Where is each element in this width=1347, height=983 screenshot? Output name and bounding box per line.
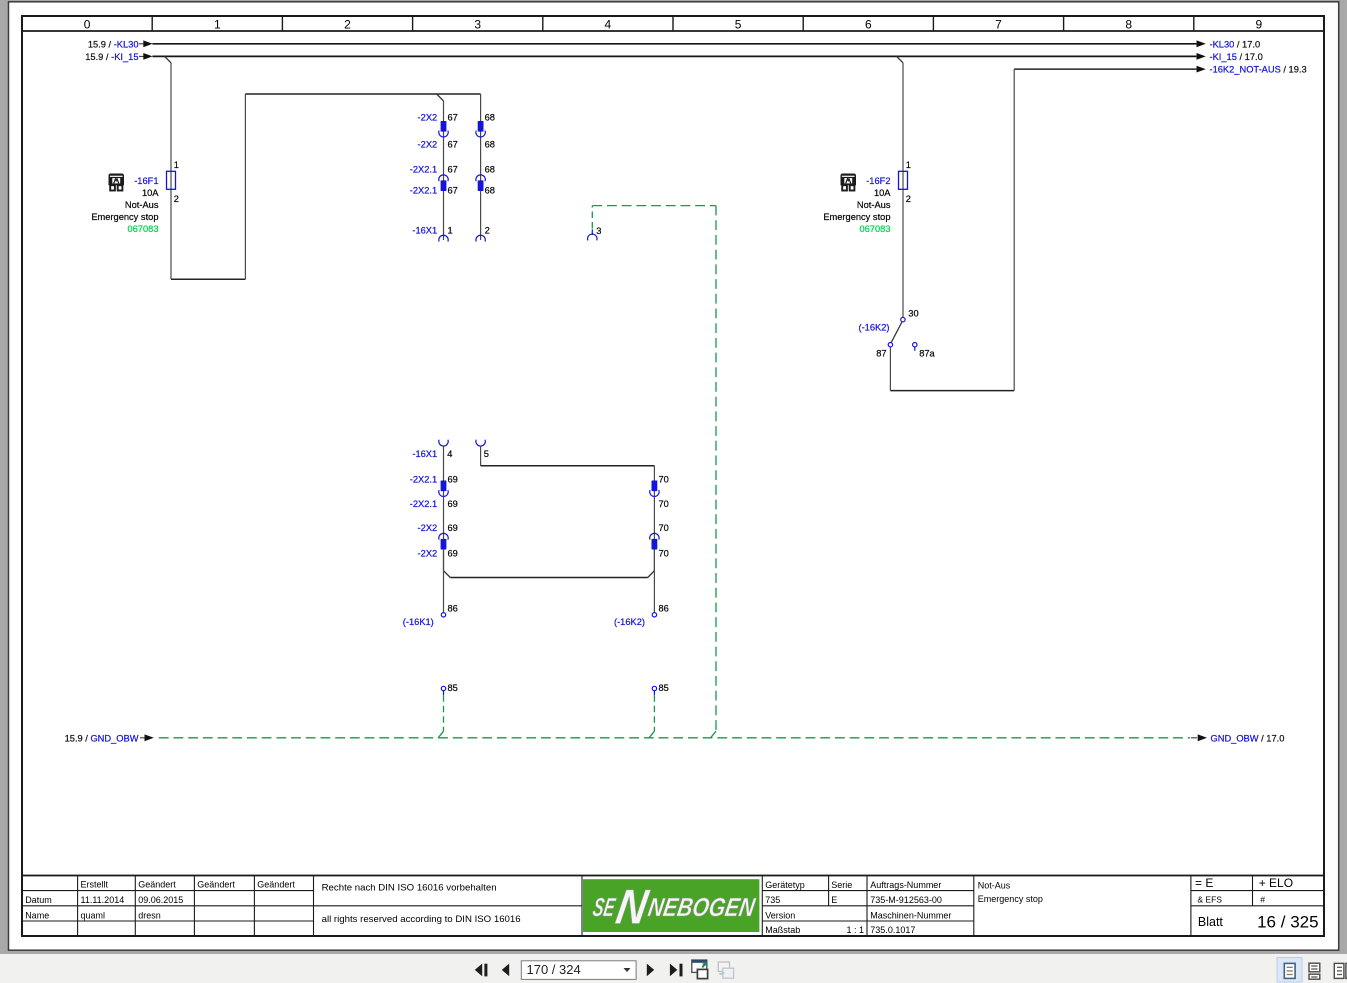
svg-text:6: 6 bbox=[865, 17, 872, 31]
svg-text:735-M-912563-00: 735-M-912563-00 bbox=[870, 895, 942, 905]
connector -2X2.1 pin 68 (lower pair) bbox=[476, 175, 485, 181]
green wire right riser down bbox=[715, 206, 717, 732]
svg-text:Not-Aus: Not-Aus bbox=[978, 881, 1011, 891]
source arrow GND_OBW left bbox=[140, 737, 146, 739]
wire net -KI_15 top bus bbox=[152, 55, 1196, 57]
svg-text:-2X2.1: -2X2.1 bbox=[410, 164, 437, 174]
svg-text:4: 4 bbox=[605, 17, 612, 31]
wire 67 chain upper bbox=[443, 101, 445, 240]
svg-text:170 / 324: 170 / 324 bbox=[527, 962, 581, 977]
wire 87 down bbox=[889, 347, 891, 391]
fuse icon F2 bbox=[841, 174, 857, 191]
svg-text:70: 70 bbox=[659, 474, 669, 484]
svg-text:-2X2: -2X2 bbox=[418, 523, 438, 533]
svg-text:-KL30 / 17.0: -KL30 / 17.0 bbox=[1210, 40, 1261, 50]
svg-text:3: 3 bbox=[474, 17, 481, 31]
wire F2 top bbox=[902, 63, 904, 317]
svg-text:2: 2 bbox=[906, 194, 911, 204]
svg-text:87a: 87a bbox=[919, 349, 935, 359]
wire KI_15 branch to fuse F2 (diagonal) bbox=[897, 56, 903, 62]
svg-text:15.9 / -KI_15: 15.9 / -KI_15 bbox=[85, 52, 138, 62]
svg-text:85: 85 bbox=[448, 683, 458, 693]
svg-text:2: 2 bbox=[344, 17, 351, 31]
source arrow -KI_15 left bbox=[139, 55, 145, 57]
svg-text:#: # bbox=[1260, 894, 1265, 904]
svg-text:70: 70 bbox=[659, 499, 669, 509]
svg-text:67: 67 bbox=[448, 185, 458, 195]
destination arrow -KI_15 right bbox=[1197, 53, 1206, 60]
coil -16K1 pin 86 bbox=[441, 613, 445, 617]
svg-text:Gerätetyp: Gerätetyp bbox=[765, 880, 805, 890]
toolbar next-view button (disabled) bbox=[718, 962, 733, 978]
svg-text:Blatt: Blatt bbox=[1198, 915, 1224, 929]
svg-text:Maschinen-Nummer: Maschinen-Nummer bbox=[870, 910, 951, 920]
svg-text:Not-Aus: Not-Aus bbox=[857, 200, 891, 210]
svg-text:9: 9 bbox=[1256, 17, 1263, 31]
svg-text:70: 70 bbox=[659, 523, 669, 533]
svg-text:85: 85 bbox=[659, 683, 669, 693]
wire pin5 down and over bbox=[480, 446, 482, 466]
fuse -16F1 bbox=[167, 171, 176, 189]
wire branch diagonal to 67 chain bbox=[437, 94, 444, 101]
svg-text:4: 4 bbox=[447, 449, 452, 459]
toolbar page-layout single (selected) bbox=[1277, 958, 1302, 983]
svg-text:+ ELO: + ELO bbox=[1259, 876, 1293, 890]
fuse icon F1 bbox=[109, 174, 125, 191]
svg-text:Erstellt: Erstellt bbox=[81, 880, 109, 890]
svg-text:Name: Name bbox=[25, 910, 49, 920]
svg-text:69: 69 bbox=[448, 499, 458, 509]
svg-text:= E: = E bbox=[1195, 876, 1213, 890]
svg-text:Version: Version bbox=[765, 910, 795, 920]
svg-text:GND_OBW / 17.0: GND_OBW / 17.0 bbox=[1211, 733, 1285, 743]
source arrow -KL30 left bbox=[139, 43, 145, 45]
destination arrow -KL30 right bbox=[1197, 40, 1206, 47]
svg-text:735.0.1017: 735.0.1017 bbox=[870, 925, 915, 935]
green wire horizontal bbox=[592, 205, 716, 207]
svg-text:Emergency stop: Emergency stop bbox=[91, 212, 158, 222]
svg-text:86: 86 bbox=[448, 604, 458, 614]
svg-text:& EFS: & EFS bbox=[1197, 894, 1222, 904]
title block bbox=[22, 876, 1324, 937]
svg-text:67: 67 bbox=[448, 164, 458, 174]
svg-text:Rechte nach DIN ISO 16016 vorb: Rechte nach DIN ISO 16016 vorbehalten bbox=[322, 883, 497, 894]
svg-text:15.9 / -KL30: 15.9 / -KL30 bbox=[88, 39, 139, 49]
svg-text:5: 5 bbox=[484, 449, 489, 459]
svg-text:Emergency stop: Emergency stop bbox=[823, 212, 890, 222]
svg-text:dresn: dresn bbox=[138, 910, 161, 920]
svg-text:16 / 325: 16 / 325 bbox=[1257, 912, 1319, 931]
toolbar page-layout two-up bbox=[1334, 963, 1347, 978]
svg-text:-2X2: -2X2 bbox=[418, 113, 438, 123]
svg-text:1: 1 bbox=[448, 226, 453, 236]
wire bottom horizontal to riser bbox=[171, 278, 245, 280]
toolbar last-page button bbox=[670, 964, 677, 977]
svg-text:10A: 10A bbox=[142, 188, 159, 198]
svg-text:Geändert: Geändert bbox=[197, 880, 235, 890]
svg-text:30: 30 bbox=[908, 308, 918, 318]
green wire pin85 K2 down bbox=[653, 695, 655, 731]
terminal -16X1 pin 3 socket bbox=[588, 234, 597, 240]
svg-text:(-16K2): (-16K2) bbox=[614, 617, 645, 627]
connector -2X2 pin 68 (upper pair) bbox=[478, 121, 484, 132]
toolbar next-page button bbox=[647, 964, 654, 977]
svg-text:11.11.2014: 11.11.2014 bbox=[81, 895, 125, 905]
svg-text:-2X2.1: -2X2.1 bbox=[410, 474, 437, 484]
terminal -16X1 pin 2 socket bbox=[476, 235, 485, 241]
svg-text:2: 2 bbox=[174, 194, 179, 204]
connector -2X2 pin 69 (lower pair) bbox=[439, 533, 448, 539]
svg-text:Geändert: Geändert bbox=[138, 880, 176, 890]
svg-text:-2X2.1: -2X2.1 bbox=[410, 185, 437, 195]
svg-text:-16K2_NOT-AUS / 19.3: -16K2_NOT-AUS / 19.3 bbox=[1210, 65, 1307, 75]
svg-text:1 : 1: 1 : 1 bbox=[846, 925, 864, 935]
coil -16K2 pin 85 bbox=[652, 686, 656, 690]
green wire from pin 3 up bbox=[591, 206, 593, 229]
connector -2X2.1 pin 69 (upper pair) bbox=[441, 481, 447, 492]
wire junction left diagonal bbox=[444, 571, 451, 578]
contact -16K2 pin 87 bbox=[888, 343, 892, 347]
svg-text:067083: 067083 bbox=[127, 224, 158, 234]
contact -16K2 pin 87a bbox=[913, 343, 917, 347]
svg-text:-2X2.1: -2X2.1 bbox=[410, 499, 437, 509]
svg-text:NEBOGEN: NEBOGEN bbox=[646, 892, 758, 922]
svg-text:67: 67 bbox=[448, 113, 458, 123]
wire junction right diagonal bbox=[648, 571, 655, 578]
connector -2X2.1 pin 67 (lower pair) bbox=[439, 175, 448, 181]
svg-text:1: 1 bbox=[906, 160, 911, 170]
svg-text:-2X2: -2X2 bbox=[418, 548, 438, 558]
svg-text:Datum: Datum bbox=[25, 895, 52, 905]
SENNEBOGEN logo bbox=[583, 879, 759, 932]
terminal -16X1 pin 5 socket bbox=[476, 440, 485, 446]
toolbar page box 170 / 324 bbox=[521, 961, 636, 980]
svg-text:Serie: Serie bbox=[831, 880, 852, 890]
svg-text:all rights reserved according: all rights reserved according to DIN ISO… bbox=[322, 914, 521, 925]
coil -16K1 pin 85 bbox=[441, 686, 445, 690]
svg-text:68: 68 bbox=[485, 113, 495, 123]
svg-text:067083: 067083 bbox=[859, 224, 890, 234]
wire riser up bbox=[244, 94, 246, 279]
svg-text:5: 5 bbox=[735, 17, 742, 31]
toolbar page-layout continuous bbox=[1309, 963, 1320, 979]
wire net GND_OBW bus (green dashed) bbox=[159, 737, 1190, 739]
svg-text:68: 68 bbox=[485, 164, 495, 174]
svg-text:86: 86 bbox=[659, 604, 669, 614]
wire left chain to coil K1 bbox=[443, 550, 445, 613]
svg-text:Maßstab: Maßstab bbox=[765, 925, 800, 935]
wire F1 top bbox=[170, 63, 172, 279]
wire KI_15 branch to fuse F1 (diagonal) bbox=[165, 56, 171, 62]
svg-text:Auftrags-Nummer: Auftrags-Nummer bbox=[870, 880, 941, 890]
svg-text:0: 0 bbox=[84, 17, 91, 31]
wire right chain to coil K2 bbox=[653, 550, 655, 613]
terminal -16X1 pin 1 socket bbox=[439, 235, 448, 241]
toolbar previous-view button bbox=[692, 960, 708, 979]
svg-text:E: E bbox=[831, 895, 837, 905]
green branch diagonal onto GND bus bbox=[711, 731, 716, 738]
connector -2X2 pin 70 (lower pair) bbox=[650, 533, 659, 539]
svg-text:1: 1 bbox=[174, 160, 179, 170]
wire net -16K2_NOT-AUS to sheet 19.3 bbox=[1014, 68, 1196, 70]
svg-text:10A: 10A bbox=[874, 188, 891, 198]
bottom toolbar bbox=[0, 954, 1347, 983]
svg-text:70: 70 bbox=[659, 548, 669, 558]
svg-text:Geändert: Geändert bbox=[257, 880, 295, 890]
wire pin4 down bbox=[443, 446, 445, 571]
wire top distribution bbox=[245, 93, 480, 95]
svg-text:7: 7 bbox=[995, 17, 1002, 31]
svg-text:15.9 / GND_OBW: 15.9 / GND_OBW bbox=[65, 733, 139, 743]
destination arrow GND_OBW right bbox=[1191, 737, 1197, 739]
svg-text:68: 68 bbox=[485, 139, 495, 149]
contact -16K2 pin 30 bbox=[901, 317, 905, 321]
svg-text:Emergency stop: Emergency stop bbox=[978, 894, 1043, 904]
fuse -16F2 bbox=[899, 171, 908, 189]
svg-text:quaml: quaml bbox=[81, 910, 106, 920]
wire net -KL30 top bus bbox=[152, 43, 1196, 45]
wire riser x1014 up bbox=[1013, 69, 1015, 391]
svg-text:-2X2: -2X2 bbox=[418, 139, 438, 149]
svg-text:(-16K2): (-16K2) bbox=[858, 323, 889, 333]
svg-text:-KI_15 / 17.0: -KI_15 / 17.0 bbox=[1210, 52, 1263, 62]
svg-text:67: 67 bbox=[448, 139, 458, 149]
svg-text:87: 87 bbox=[876, 349, 886, 359]
contact blade 30-87 bbox=[891, 322, 902, 343]
svg-text:-16F1: -16F1 bbox=[134, 176, 158, 186]
toolbar prev-page button bbox=[502, 964, 509, 977]
svg-text:69: 69 bbox=[448, 474, 458, 484]
connector -2X2.1 pin 70 (upper pair) bbox=[652, 481, 658, 492]
svg-text:Not-Aus: Not-Aus bbox=[125, 200, 159, 210]
destination arrow -16K2_NOT-AUS bbox=[1197, 66, 1206, 73]
svg-text:3: 3 bbox=[596, 226, 601, 236]
svg-text:09.06.2015: 09.06.2015 bbox=[138, 895, 183, 905]
svg-text:(-16K1): (-16K1) bbox=[403, 617, 434, 627]
wire cross horizontal bbox=[450, 577, 648, 579]
connector -2X2 pin 67 (upper pair) bbox=[441, 121, 447, 132]
svg-text:8: 8 bbox=[1125, 17, 1132, 31]
svg-text:-16F2: -16F2 bbox=[866, 176, 890, 186]
wire 68 chain upper bbox=[480, 94, 482, 240]
svg-text:68: 68 bbox=[485, 185, 495, 195]
svg-text:-16X1: -16X1 bbox=[412, 226, 437, 236]
wire to riser bbox=[890, 390, 1014, 392]
svg-text:2: 2 bbox=[485, 226, 490, 236]
svg-text:1: 1 bbox=[214, 17, 221, 31]
svg-text:69: 69 bbox=[448, 548, 458, 558]
svg-text:735: 735 bbox=[765, 895, 780, 905]
svg-text:-16X1: -16X1 bbox=[412, 449, 437, 459]
green wire pin85 K1 down bbox=[443, 695, 445, 731]
coil -16K2 pin 86 bbox=[652, 613, 656, 617]
svg-text:69: 69 bbox=[448, 523, 458, 533]
terminal -16X1 pin 4 socket bbox=[439, 440, 448, 446]
toolbar first-page button bbox=[475, 964, 482, 977]
